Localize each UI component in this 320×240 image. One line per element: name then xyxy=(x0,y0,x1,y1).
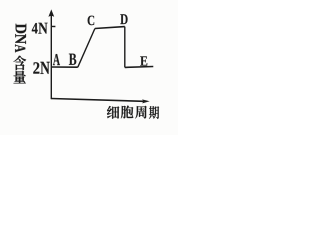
label 2N: letter N xyxy=(40,62,49,74)
label DNA rotated: D xyxy=(16,24,27,34)
label 4N: digit 4 xyxy=(32,23,38,33)
label Chinese qi1 (cell-cycle char 4) xyxy=(149,106,159,119)
y-axis arrowhead xyxy=(48,9,54,16)
label Chinese han2 (content char 1) xyxy=(14,56,27,71)
curve segment B-C (rise) xyxy=(78,29,95,68)
label E (point E) xyxy=(140,56,147,65)
curve segment E (final 2N plateau) xyxy=(125,66,154,69)
x-axis xyxy=(51,99,143,102)
curve segment A-B (2N plateau) xyxy=(52,66,78,68)
curve segment C-D (4N plateau) xyxy=(95,27,125,29)
y-axis xyxy=(50,13,52,100)
tick at 4N level xyxy=(51,25,55,27)
label DNA rotated: A xyxy=(15,44,25,52)
label Chinese xi4 (cell-cycle char 1) xyxy=(107,106,119,119)
x-axis arrowhead xyxy=(142,99,150,103)
label Chinese zhou1 (cell-cycle char 3) xyxy=(135,106,146,119)
label A (point A) xyxy=(53,54,60,65)
label 4N: letter N xyxy=(38,23,47,34)
label Chinese liang4 (content char 2) xyxy=(13,71,25,84)
label DNA rotated: N xyxy=(15,34,26,44)
label D (point D) xyxy=(120,14,127,24)
curve segment D (vertical drop) xyxy=(124,27,126,68)
label Chinese bao1 (cell-cycle char 2) xyxy=(121,106,133,119)
label C (point C) xyxy=(88,16,95,26)
label 2N: digit 2 xyxy=(33,62,39,73)
label B (point B) xyxy=(69,54,76,65)
